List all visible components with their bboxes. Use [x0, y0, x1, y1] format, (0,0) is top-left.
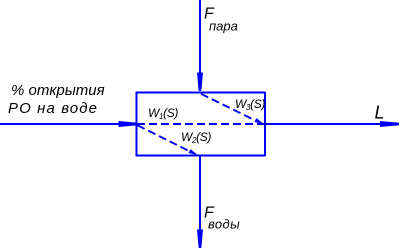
arrowhead at F_vody output end — [197, 230, 203, 248]
wire: valve-opening input (horizontal, left) — [0, 123, 137, 125]
dashed path W3: top input to right output — [201, 94, 255, 121]
svg-text:L: L — [375, 103, 385, 123]
svg-text:W3(S): W3(S) — [235, 97, 265, 112]
block W process rectangle — [137, 93, 266, 156]
arrowhead W3 — [255, 118, 265, 124]
svg-text:воды: воды — [208, 217, 240, 232]
arrowhead at L output end — [380, 121, 399, 127]
wire: F_vody water output (vertical, bottom) — [199, 156, 201, 248]
arrowhead into block top — [197, 73, 203, 91]
svg-text:пара: пара — [209, 19, 238, 34]
wire: F_para steam input (vertical, top) — [199, 0, 201, 91]
svg-text:W1(S): W1(S) — [148, 106, 178, 121]
svg-text:W2(S): W2(S) — [181, 130, 211, 145]
wire: L level output (horizontal, right) — [264, 123, 399, 125]
arrowhead into block left — [119, 121, 137, 127]
dashed path W2: left input to bottom output — [138, 125, 190, 151]
arrowhead W2 — [189, 149, 199, 155]
svg-text:РО на воде: РО на воде — [8, 100, 98, 117]
svg-text:% открытия: % открытия — [11, 82, 105, 99]
dashed path W1: left input to right output — [137, 123, 264, 125]
